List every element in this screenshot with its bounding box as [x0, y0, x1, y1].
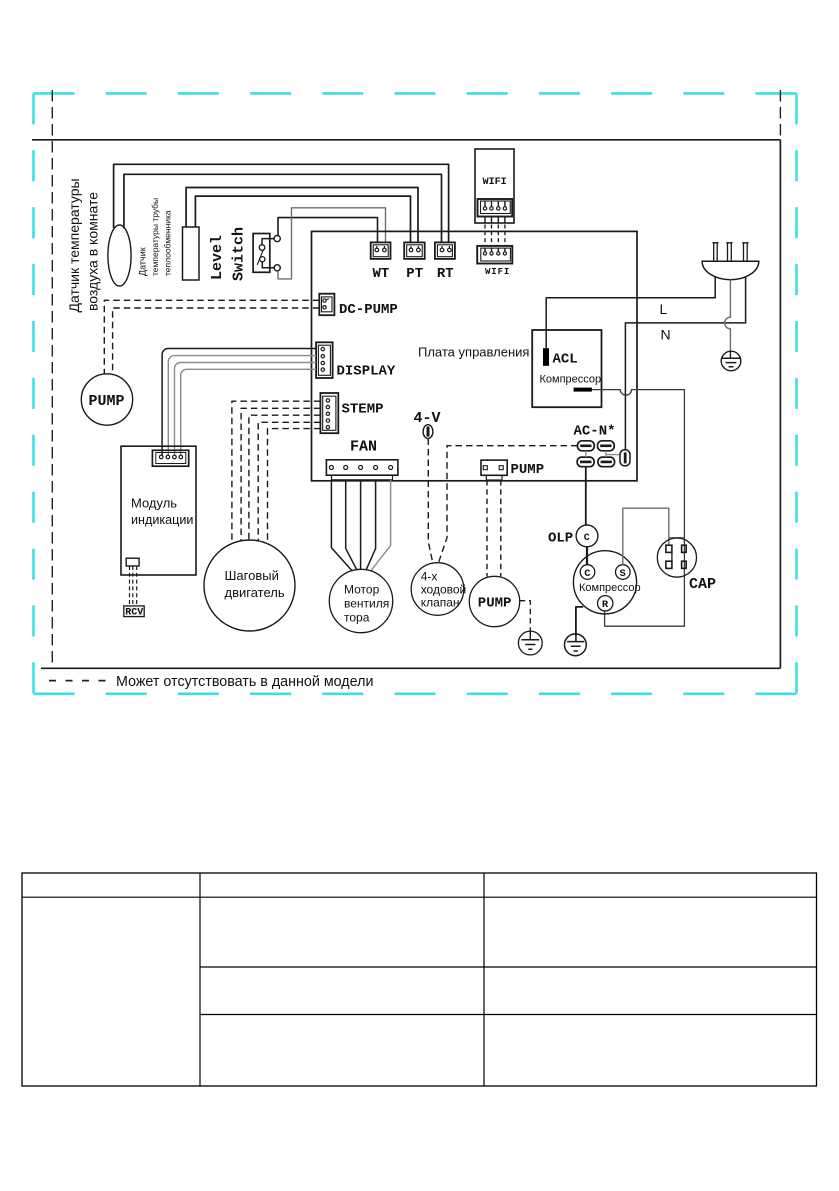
board WIFI connector inner: [481, 248, 511, 261]
svg-text:AC-N*: AC-N*: [574, 424, 616, 440]
svg-text:Датчик: Датчик: [138, 247, 148, 276]
svg-text:4-х: 4-х: [421, 570, 438, 584]
STEMP pin 4: [326, 419, 329, 422]
dashed wire PUMP connector pin1 to pump: [486, 480, 488, 577]
legend dashed sample: [49, 680, 111, 682]
svg-text:C: C: [584, 533, 590, 544]
FAN pin 4: [374, 466, 378, 470]
AC-N terminal 1: [578, 441, 595, 451]
connector STEMP outer: [320, 393, 338, 433]
svg-text:C: C: [584, 568, 591, 580]
ACL protector box: [532, 330, 601, 407]
4-V coil component: [423, 425, 433, 439]
AC-N terminal 2: [598, 441, 615, 451]
WIFI dashed wire 4: [504, 225, 506, 246]
compressor M5 circle: [573, 551, 636, 614]
level switch terminal 1: [274, 236, 280, 242]
wire AC-N terminal3 to OLP: [585, 467, 587, 525]
dashed wire STEMP pin2 to stepper motor: [241, 408, 320, 541]
connector WT inner: [373, 245, 388, 257]
svg-text:Шаговый: Шаговый: [225, 568, 279, 583]
compressor terminal S: [616, 565, 631, 580]
connector WT outer: [371, 242, 391, 259]
connector RT inner: [437, 245, 452, 257]
dashed wire STEMP pin5 to stepper motor: [268, 429, 321, 544]
wire bulb pin1 to RT pin2: [114, 164, 449, 243]
pump motor M1 circle: [81, 374, 132, 425]
WIFI module pin 1: [484, 201, 486, 207]
board WIFI pin 2: [491, 248, 493, 252]
connector DISPLAY outer: [316, 342, 333, 378]
wire level switch terminal2 to WT pin2: [278, 208, 386, 279]
compressor terminal C: [580, 565, 595, 580]
WIFI module pin 4: [504, 201, 506, 207]
svg-text:температуры трубы: температуры трубы: [150, 198, 160, 276]
svg-text:воздуха в комнате: воздуха в комнате: [85, 192, 101, 311]
dashed wire PUMP connector pin2 to pump: [500, 480, 502, 576]
module pin 1: [159, 455, 163, 459]
table outer border: [22, 873, 817, 1086]
svg-text:DC-PUMP: DC-PUMP: [339, 302, 398, 318]
link terminal2-terminal4: [605, 451, 607, 457]
stepper motor M2 circle: [204, 540, 295, 631]
link terminal1-terminal3: [585, 451, 587, 457]
level switch S1 body: [253, 234, 270, 273]
board WIFI pin 1: [484, 248, 486, 252]
board WIFI pin 3: [497, 248, 499, 252]
dashed wire AC-N to 4-way valve: [439, 446, 578, 562]
power plug P1 prong 2: [728, 243, 732, 261]
board WIFI connector outer: [477, 246, 512, 264]
wire level switch terminal1 to WT pin1: [278, 218, 378, 243]
connector STEMP inner: [323, 396, 336, 430]
svg-text:Компрессор: Компрессор: [579, 582, 641, 594]
ACL thermal element bar: [543, 348, 549, 366]
cyan dashed page border left: [32, 93, 35, 693]
wire plug N to AC-N fuse: [625, 277, 745, 450]
level switch internal wire to terminal 1: [262, 239, 274, 245]
svg-text:тора: тора: [344, 611, 370, 625]
svg-text:STEMP: STEMP: [342, 402, 384, 418]
STEMP pin 1: [326, 399, 329, 402]
svg-text:WIFI: WIFI: [483, 177, 507, 188]
connector DC-PUMP inner: [322, 297, 333, 312]
connector PT inner: [407, 245, 423, 257]
svg-text:Может отсутствовать в данной м: Может отсутствовать в данной модели: [116, 674, 373, 690]
svg-text:PUMP: PUMP: [511, 462, 545, 478]
RT pin 1: [441, 246, 443, 248]
CAP left capacitor element: [666, 545, 672, 552]
diagram box right border: [779, 140, 781, 669]
dashed wire module to RCV 2: [132, 566, 134, 606]
WT pin 1: [376, 246, 378, 248]
dashed wire module to RCV 1: [129, 566, 131, 606]
dashed wire module to RCV 3: [136, 566, 138, 606]
svg-text:PT: PT: [406, 266, 423, 282]
svg-text:FAN: FAN: [350, 439, 377, 456]
dashed wire pump to ground: [520, 601, 531, 631]
level switch internal wire to terminal 2: [262, 262, 274, 268]
WT pin 2: [383, 246, 385, 248]
svg-text:клапан: клапан: [421, 596, 460, 610]
FAN pin 3: [359, 466, 363, 470]
connector PT outer: [404, 242, 425, 259]
STEMP pin 2: [326, 405, 329, 408]
connector DC-PUMP outer: [319, 294, 334, 316]
PUMP connector lip: [486, 475, 502, 480]
power plug P1 body: [702, 261, 759, 280]
wire FAN pin5 to fan motor: [371, 480, 391, 572]
wire bulb pin2 to RT pin1: [124, 174, 442, 243]
DC-PUMP pin 1: [323, 299, 326, 302]
black dashed margin line left: [51, 90, 53, 668]
FAN pin 2: [344, 466, 348, 470]
WIFI wire stub 4: [504, 217, 506, 223]
diagram box bottom border: [41, 667, 780, 669]
WIFI dashed wire 1: [484, 225, 486, 246]
DISPLAY pin 3: [321, 361, 324, 364]
4-V coil core bar: [427, 427, 430, 437]
wire DISPLAY pin2 to indication module: [168, 356, 316, 456]
module bottom connector: [126, 558, 139, 566]
RT pin 2: [448, 246, 450, 248]
AC-N fuse component: [620, 450, 630, 466]
cyan dashed page border bottom: [34, 692, 797, 695]
svg-text:DISPLAY: DISPLAY: [337, 364, 396, 380]
svg-text:L: L: [660, 301, 668, 317]
ground symbol (plug): [721, 351, 741, 371]
svg-text:ходовой: ходовой: [421, 583, 467, 597]
svg-text:Мотор: Мотор: [344, 583, 380, 597]
wire compressor S to CAP: [623, 508, 669, 565]
PT pin 1: [410, 246, 412, 248]
connector FAN outer: [326, 460, 398, 475]
ACL output contact bar: [574, 388, 592, 392]
level switch contact circle bottom: [260, 257, 265, 262]
DISPLAY pin 4: [321, 368, 324, 371]
DISPLAY pin 2: [321, 355, 324, 358]
wire DISPLAY pin3 to indication module: [175, 363, 317, 456]
connector DISPLAY inner: [318, 345, 330, 375]
fan motor M3 circle: [329, 569, 392, 632]
cyan dashed page border top: [34, 92, 797, 95]
wire OLP to compressor C: [586, 547, 588, 565]
compressor terminal R: [598, 596, 613, 611]
wire pipe sensor pin2 to PT pin1: [195, 196, 410, 243]
DISPLAY pin 1: [321, 347, 324, 350]
WIFI dashed wire 2: [491, 225, 493, 246]
wire FAN pin2 to fan motor: [346, 480, 357, 570]
AC-N terminal 4: [598, 457, 615, 467]
link terminal4 to fuse: [606, 454, 620, 456]
WIFI module pin 3: [497, 201, 499, 207]
svg-text:теплообменника: теплообменника: [163, 210, 173, 276]
PUMP connector pin 2: [499, 466, 503, 470]
dashed wire STEMP pin4 to stepper motor: [258, 422, 320, 541]
wire compressor case to ground: [576, 607, 583, 634]
pump motor M4 circle: [469, 576, 519, 626]
svg-text:индикации: индикации: [131, 513, 193, 527]
WIFI wire stub 3: [497, 217, 499, 223]
STEMP pin 5: [326, 426, 329, 429]
diagram box top border: [32, 139, 780, 141]
connector PUMP outer: [481, 460, 507, 475]
WIFI module box: [475, 149, 514, 223]
svg-text:WT: WT: [373, 266, 390, 282]
module pin 3: [173, 455, 177, 459]
svg-text:WIFI: WIFI: [485, 267, 510, 277]
table column line 1: [199, 873, 201, 1086]
wire DISPLAY pin1 to indication module: [162, 349, 316, 456]
dashed wire PUMP to DC-PUMP pin1: [104, 300, 319, 374]
WIFI wire stub 1: [484, 217, 486, 223]
svg-text:Модуль: Модуль: [131, 496, 177, 511]
wire FAN pin3 to fan motor: [360, 480, 362, 570]
OLP overload protector circle: [576, 525, 598, 547]
svg-text:Датчик температуры: Датчик температуры: [66, 178, 82, 312]
dashed wire STEMP pin3 to stepper motor: [249, 415, 321, 540]
ground symbol (pump): [518, 631, 542, 655]
FAN connector lip: [332, 475, 393, 480]
module pin 4: [179, 455, 183, 459]
DC-PUMP pin 2: [323, 306, 326, 309]
svg-text:OLP: OLP: [548, 531, 573, 547]
ground symbol (compressor): [565, 634, 587, 656]
wire FAN pin4 to fan motor: [366, 480, 376, 570]
wire pipe sensor pin1 to PT pin2: [186, 188, 418, 244]
CAP run capacitor circle: [657, 538, 696, 577]
FAN pin 1: [329, 466, 333, 470]
wire tie at CAP top: [669, 537, 685, 539]
dashed wire PUMP to DC-PUMP pin2: [113, 308, 320, 375]
level switch lever: [257, 250, 263, 265]
PT pin 2: [417, 246, 419, 248]
table row line 2: [200, 1014, 817, 1016]
RCV receiver box: [124, 606, 144, 617]
CAP right capacitor element: [682, 545, 687, 552]
indication module connector outer: [152, 450, 188, 466]
wire plug L to ACL: [546, 277, 715, 349]
svg-text:CAP: CAP: [689, 576, 716, 593]
PUMP connector pin 1: [483, 466, 487, 470]
indication module box: [121, 446, 196, 575]
svg-text:Switch: Switch: [231, 227, 248, 281]
WIFI dashed wire 3: [497, 225, 499, 246]
cyan dashed page border right: [795, 93, 798, 693]
4-way valve circle: [411, 563, 464, 616]
WIFI module connector inner: [481, 201, 511, 214]
WIFI wire stub 2: [491, 217, 493, 223]
indication module connector inner: [156, 453, 186, 464]
wire DISPLAY pin4 to indication module: [181, 369, 316, 455]
wire plug earth pin to ground (with hop): [725, 280, 731, 352]
table row line 1: [200, 966, 817, 968]
svg-text:R: R: [602, 599, 609, 611]
dashed wire STEMP pin1 to stepper motor: [232, 401, 321, 543]
power plug P1 prong 1: [714, 243, 718, 261]
FAN pin 5: [389, 466, 393, 470]
black dashed margin line right (above diagram box): [779, 90, 781, 140]
svg-text:Плата управления: Плата управления: [418, 345, 529, 360]
svg-text:RCV: RCV: [125, 608, 143, 619]
svg-text:ACL: ACL: [553, 352, 578, 368]
AC-N terminal 3: [577, 457, 594, 467]
table header row separator: [22, 896, 817, 898]
WIFI module connector outer: [478, 199, 513, 217]
power plug P1 prong 3: [744, 243, 748, 261]
svg-text:PUMP: PUMP: [89, 393, 125, 410]
svg-text:N: N: [661, 327, 671, 343]
pipe temperature sensor body: [183, 227, 200, 280]
svg-text:Level: Level: [209, 235, 226, 280]
table column line 2: [483, 873, 485, 1086]
control board U1 outline: [312, 231, 638, 480]
WIFI module pin 2: [491, 201, 493, 207]
svg-text:Компрессор: Компрессор: [540, 374, 602, 386]
svg-text:вентиля: вентиля: [344, 597, 389, 611]
svg-text:RT: RT: [437, 266, 454, 282]
STEMP pin 3: [326, 412, 329, 415]
level switch terminal 2: [274, 265, 280, 271]
connector RT outer: [435, 242, 455, 259]
board WIFI pin 4: [504, 248, 506, 252]
room temperature sensor bulb: [108, 225, 131, 286]
svg-text:двигатель: двигатель: [225, 585, 285, 600]
svg-text:S: S: [620, 568, 626, 580]
wire FAN pin1 to fan motor: [331, 480, 352, 572]
wire ACL to CAP and compressor R (with hop over N wire): [592, 390, 685, 627]
module pin 2: [166, 455, 170, 459]
dashed wire 4-V coil to 4-way valve: [428, 439, 432, 563]
level switch contact circle top: [259, 245, 265, 251]
svg-text:PUMP: PUMP: [478, 596, 512, 612]
